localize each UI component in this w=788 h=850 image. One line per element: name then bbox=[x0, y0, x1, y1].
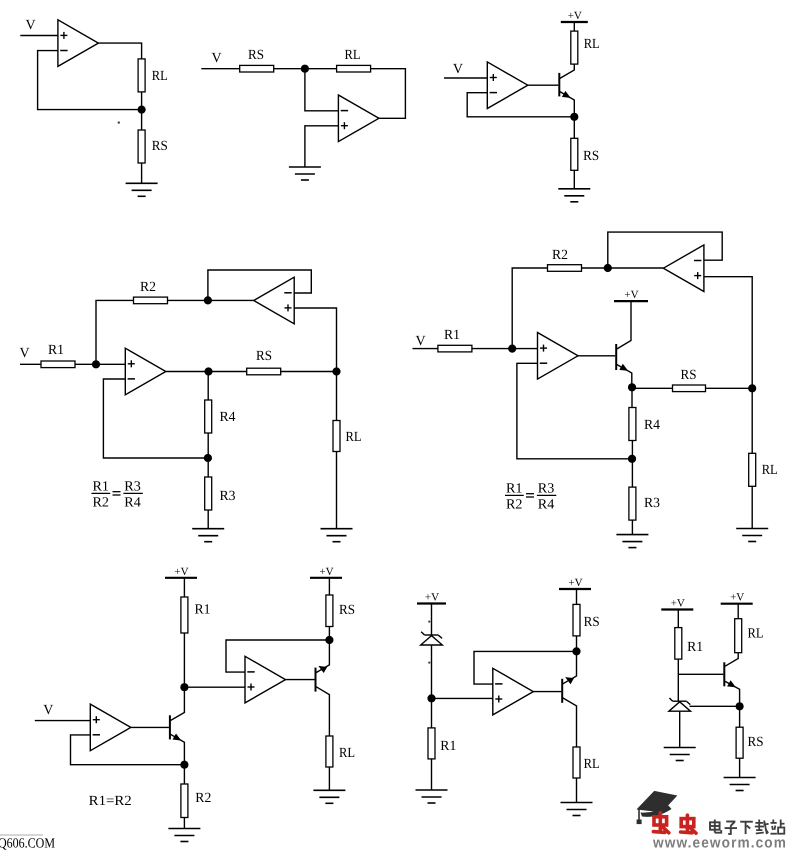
wire feedback bbox=[38, 51, 138, 110]
wire feedback bbox=[474, 651, 577, 684]
resistor R3 bbox=[205, 477, 212, 510]
wire emitter bbox=[316, 640, 329, 673]
svg-text:+V: +V bbox=[174, 566, 188, 578]
svg-text:V: V bbox=[212, 51, 222, 66]
wire bbox=[20, 35, 58, 37]
wire output bbox=[166, 371, 247, 373]
logo graduation cap bbox=[637, 791, 677, 824]
wire bbox=[631, 387, 633, 407]
svg-text:R1: R1 bbox=[506, 482, 523, 497]
stray dot bbox=[118, 121, 120, 123]
logo text zai bbox=[755, 820, 769, 835]
node RS-RL junction bbox=[301, 65, 309, 73]
resistor R4 bbox=[205, 400, 212, 433]
wire collector bbox=[725, 653, 738, 667]
wire bbox=[751, 486, 753, 528]
svg-text:R1: R1 bbox=[48, 343, 64, 358]
node RS-emitter junction bbox=[325, 636, 333, 644]
node emitter-RS junction bbox=[736, 702, 744, 710]
node emitter-RS junction bbox=[570, 113, 578, 121]
svg-text:+V: +V bbox=[568, 577, 582, 589]
wire bbox=[677, 610, 679, 628]
wire feedback bbox=[467, 93, 574, 117]
wire non-inverting input to ground bbox=[305, 126, 339, 167]
emitter arrow bbox=[619, 364, 630, 374]
transistor Q2 bbox=[615, 344, 617, 370]
logo text xia bbox=[740, 822, 753, 834]
wire base bbox=[578, 355, 615, 357]
emitter arrow bbox=[727, 680, 738, 690]
wire collector bbox=[563, 698, 577, 747]
svg-text:R4: R4 bbox=[124, 495, 141, 510]
ground bbox=[289, 166, 321, 168]
wire collector bbox=[617, 301, 631, 349]
ground bbox=[192, 528, 224, 530]
svg-text:+V: +V bbox=[425, 592, 439, 604]
resistor R2 bbox=[181, 784, 188, 818]
node R2-U5 junction bbox=[204, 296, 212, 304]
wire bbox=[183, 818, 185, 829]
wire bbox=[739, 758, 741, 777]
ground bbox=[558, 188, 590, 190]
svg-text:R3: R3 bbox=[538, 482, 555, 497]
resistor R3 bbox=[629, 487, 636, 520]
wire U7 output bbox=[608, 267, 664, 269]
resistor R2 bbox=[548, 265, 582, 272]
svg-text:RS: RS bbox=[583, 149, 599, 164]
wire bbox=[413, 348, 438, 350]
node R1 input junction bbox=[92, 360, 100, 368]
wire bbox=[751, 388, 753, 453]
svg-text:RS: RS bbox=[584, 615, 600, 630]
wire bbox=[281, 371, 337, 373]
svg-text:+V: +V bbox=[319, 566, 333, 578]
svg-text:RL: RL bbox=[152, 69, 168, 84]
wire feedback bbox=[71, 735, 185, 765]
resistor RL bbox=[573, 747, 580, 778]
svg-text:RL: RL bbox=[748, 627, 764, 642]
wire bbox=[328, 767, 330, 790]
svg-text:V: V bbox=[43, 703, 53, 718]
ground bbox=[616, 534, 648, 536]
svg-text:V: V bbox=[26, 18, 36, 33]
node output-R4-RS junction bbox=[204, 367, 212, 375]
resistor R4 bbox=[629, 408, 636, 441]
wire collector bbox=[560, 64, 574, 78]
svg-text:RL: RL bbox=[762, 463, 778, 478]
wire bbox=[472, 348, 538, 350]
wire bbox=[207, 372, 209, 401]
svg-text:R2: R2 bbox=[93, 495, 110, 510]
svg-text:RS: RS bbox=[748, 735, 764, 750]
wire bbox=[207, 510, 209, 529]
wire emitter bbox=[560, 92, 574, 117]
wire feedback loop bbox=[608, 232, 722, 268]
wire feedback to inverting input bbox=[305, 69, 339, 111]
resistor RL bbox=[571, 31, 578, 64]
wire base bbox=[131, 726, 169, 728]
resistor RS bbox=[736, 727, 743, 758]
wire to non-inverting input bbox=[184, 686, 245, 688]
svg-text:V: V bbox=[453, 62, 463, 77]
svg-text:R2: R2 bbox=[195, 791, 211, 806]
wire collector bbox=[171, 687, 185, 720]
zener diode bbox=[673, 700, 687, 702]
wire up to R2 bbox=[96, 300, 134, 364]
logo text zhan bbox=[771, 820, 785, 834]
resistor R1 bbox=[41, 361, 75, 368]
node RS-RL junction bbox=[332, 367, 340, 375]
resistor RS bbox=[326, 595, 333, 627]
op-amp U1 bbox=[58, 20, 99, 67]
wire bbox=[582, 267, 608, 269]
wire bbox=[573, 22, 575, 31]
wire feedback loop bbox=[208, 270, 311, 300]
svg-text:R4: R4 bbox=[538, 497, 555, 512]
emitter arrow bbox=[317, 663, 328, 673]
wire bbox=[573, 170, 575, 189]
stray dot bbox=[428, 621, 430, 623]
resistor RL bbox=[326, 736, 333, 767]
svg-text:R4: R4 bbox=[644, 418, 660, 433]
resistor RS bbox=[138, 130, 145, 163]
wire up to R2 bbox=[512, 268, 547, 349]
node emitter-R2 junction bbox=[180, 761, 188, 769]
wire bbox=[573, 117, 575, 139]
node emitter-RS junction bbox=[628, 383, 636, 391]
node R1 input junction bbox=[508, 345, 516, 353]
wire bbox=[168, 299, 208, 301]
wire bbox=[431, 604, 433, 636]
node RS-RL junction bbox=[748, 384, 756, 392]
wire bbox=[75, 363, 125, 365]
ground bbox=[724, 777, 756, 779]
svg-text:RS: RS bbox=[256, 349, 272, 364]
node RS-emitter junction bbox=[572, 647, 580, 655]
wire bbox=[631, 441, 633, 488]
resistor RL bbox=[749, 453, 756, 486]
emitter arrow bbox=[173, 733, 184, 743]
wire bbox=[274, 68, 337, 70]
wire bbox=[183, 578, 185, 597]
svg-text:V: V bbox=[416, 334, 426, 349]
logo red character chong 2 bbox=[681, 815, 696, 833]
ground bbox=[313, 789, 345, 791]
transistor Q1 bbox=[558, 73, 560, 97]
op-amp U8 bbox=[90, 704, 131, 751]
svg-text:RS: RS bbox=[248, 48, 264, 63]
wire bbox=[677, 659, 679, 701]
svg-text:RL: RL bbox=[584, 37, 600, 52]
op-amp U10 bbox=[493, 668, 534, 715]
resistor RS bbox=[240, 65, 274, 72]
svg-text:RS: RS bbox=[339, 603, 355, 618]
resistor RL bbox=[735, 619, 742, 653]
op-amp U6 bbox=[538, 333, 579, 380]
wire base bbox=[533, 691, 561, 693]
wire bbox=[576, 778, 578, 803]
stray dot bbox=[428, 662, 430, 664]
svg-text:+V: +V bbox=[671, 598, 685, 610]
node R1-collector junction bbox=[180, 683, 188, 691]
wire emitter bbox=[563, 651, 577, 683]
emitter arrow bbox=[563, 674, 574, 684]
wire bbox=[737, 604, 739, 619]
ground bbox=[664, 747, 696, 749]
wire bbox=[336, 452, 338, 529]
wire bbox=[631, 520, 633, 535]
wire non-inverting input bbox=[704, 277, 752, 389]
wire emitter bbox=[617, 365, 632, 388]
transistor Q3 bbox=[169, 715, 171, 739]
wire non-inverting input bbox=[294, 308, 336, 372]
wire bbox=[336, 372, 338, 421]
node zener-R1 junction bbox=[427, 694, 435, 702]
svg-text:R1=R2: R1=R2 bbox=[89, 794, 132, 809]
op-amp U2 bbox=[338, 95, 379, 142]
wire RS to node bbox=[632, 387, 673, 389]
wire base bbox=[286, 679, 315, 681]
svg-text:Q606.COM: Q606.COM bbox=[0, 837, 55, 850]
op-amp U4 bbox=[125, 348, 166, 395]
wire bbox=[576, 589, 578, 604]
wire bbox=[328, 578, 330, 595]
ground bbox=[561, 802, 593, 804]
svg-text:+V: +V bbox=[624, 289, 638, 301]
svg-text:R3: R3 bbox=[124, 480, 141, 495]
svg-text:R4: R4 bbox=[220, 410, 236, 425]
logo text dian bbox=[710, 820, 721, 833]
resistor RS bbox=[247, 368, 281, 375]
node R2-U7 junction bbox=[604, 264, 612, 272]
resistor RL bbox=[138, 59, 145, 92]
wire emitter bbox=[725, 681, 740, 706]
wire feedback bbox=[517, 363, 632, 459]
resistor R1 bbox=[181, 597, 188, 633]
transistor Q5 bbox=[561, 679, 563, 703]
logo red character chong 1 bbox=[653, 813, 668, 833]
svg-text:RL: RL bbox=[584, 757, 600, 772]
wire collector bbox=[316, 687, 329, 736]
ground bbox=[416, 789, 448, 791]
emitter arrow bbox=[562, 91, 573, 101]
svg-text:R1: R1 bbox=[444, 328, 460, 343]
wire feedback bbox=[103, 379, 207, 458]
resistor R1 bbox=[675, 628, 682, 660]
resistor RS bbox=[673, 385, 706, 392]
ground bbox=[126, 182, 158, 184]
svg-text:V: V bbox=[20, 346, 30, 361]
svg-text:R3: R3 bbox=[644, 496, 660, 511]
wire bbox=[98, 43, 141, 59]
resistor RS bbox=[573, 604, 580, 636]
resistor RL bbox=[333, 421, 340, 452]
wire bbox=[207, 433, 209, 477]
resistor RS bbox=[571, 138, 578, 170]
transistor Q6 bbox=[723, 662, 725, 686]
wire bbox=[141, 92, 143, 130]
svg-text:R1: R1 bbox=[195, 603, 211, 618]
resistor RL bbox=[337, 65, 371, 72]
zener diode bbox=[425, 634, 439, 636]
wire bbox=[431, 759, 433, 790]
wire to non-inverting input bbox=[432, 697, 493, 699]
svg-text:RL: RL bbox=[339, 746, 355, 761]
svg-text:+V: +V bbox=[568, 10, 582, 22]
ground bbox=[321, 528, 353, 530]
svg-text:RS: RS bbox=[152, 139, 168, 154]
svg-text:R2: R2 bbox=[506, 497, 523, 512]
svg-text:www.eeworm.com: www.eeworm.com bbox=[652, 834, 787, 850]
resistor R2 bbox=[134, 297, 168, 304]
wire bbox=[20, 363, 41, 365]
op-amp U9 bbox=[245, 656, 286, 703]
wire to base bbox=[678, 673, 723, 675]
wire feedback bbox=[226, 640, 329, 672]
svg-text:+V: +V bbox=[730, 592, 744, 604]
svg-text:R1: R1 bbox=[440, 739, 456, 754]
op-amp U3 bbox=[487, 62, 528, 109]
op-amp U5 bbox=[254, 277, 295, 324]
wire U5 output bbox=[208, 299, 254, 301]
svg-text:R2: R2 bbox=[552, 248, 568, 263]
wire bbox=[35, 720, 91, 722]
svg-text:R3: R3 bbox=[220, 489, 236, 504]
resistor R1 bbox=[428, 728, 435, 759]
svg-text:R2: R2 bbox=[140, 280, 156, 295]
faint smudge bbox=[0, 834, 43, 836]
node RL-RS junction bbox=[138, 106, 146, 114]
wire bbox=[431, 645, 433, 728]
node R4-R3 junction bbox=[628, 455, 636, 463]
svg-text:R1: R1 bbox=[687, 640, 703, 655]
wire bbox=[141, 163, 143, 183]
wire base bbox=[528, 84, 559, 86]
op-amp U7 bbox=[663, 245, 704, 292]
wire bbox=[328, 627, 330, 641]
wire bbox=[183, 765, 185, 784]
svg-text:RS: RS bbox=[681, 368, 697, 383]
ground bbox=[168, 828, 200, 830]
wire bbox=[576, 636, 578, 652]
resistor R1 bbox=[438, 345, 472, 352]
logo text zi bbox=[725, 822, 737, 834]
wire bbox=[183, 633, 185, 687]
wire zener to node bbox=[690, 705, 740, 707]
wire bbox=[679, 711, 681, 747]
ground bbox=[736, 528, 768, 530]
transistor Q4 bbox=[315, 668, 317, 692]
wire output loop bbox=[371, 69, 406, 119]
node R4-R3 junction bbox=[204, 454, 212, 462]
wire bbox=[739, 706, 741, 727]
wire bbox=[201, 68, 239, 70]
wire emitter bbox=[171, 734, 185, 764]
svg-text:RL: RL bbox=[346, 430, 362, 445]
svg-text:R1: R1 bbox=[93, 480, 110, 495]
wire bbox=[444, 77, 487, 79]
svg-text:RL: RL bbox=[345, 48, 361, 63]
